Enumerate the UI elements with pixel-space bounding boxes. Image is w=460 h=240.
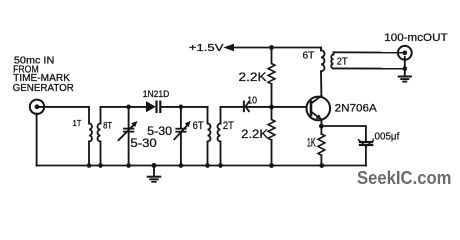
svg-text:2.2K: 2.2K (241, 129, 268, 141)
svg-text:100-mcOUT: 100-mcOUT (384, 32, 448, 44)
wire: connector down to bottom rail (36, 114, 38, 166)
resistor R3 1K (318, 126, 325, 165)
transformer T1 secondary winding 8T (98, 107, 101, 166)
label: 50mc IN / FROM / TIME-MARK / GENERATOR (13, 56, 74, 94)
svg-text:1N21D: 1N21D (143, 89, 170, 99)
svg-text:5-30: 5-30 (147, 124, 172, 138)
junction node: +1.5V rail at R1 (269, 45, 274, 50)
wire: connector to 1T top (37, 106, 89, 108)
svg-text:10: 10 (247, 95, 257, 107)
wire: emitter down to node E (320, 119, 322, 126)
junction node: base node B (269, 105, 274, 110)
junction node: output ground (402, 66, 407, 71)
wire: output connector down to ground (404, 57, 406, 76)
svg-text:GENERATOR: GENERATOR (13, 83, 74, 94)
svg-text:1T: 1T (73, 118, 82, 128)
output connector J2 (398, 46, 412, 60)
svg-text:+1.5V: +1.5V (189, 43, 224, 54)
junction node: rail at 1T (87, 163, 92, 168)
svg-text:1K: 1K (307, 138, 316, 150)
+1.5V supply arrow (225, 44, 321, 50)
wire: 8T top to diode anode (101, 106, 147, 108)
transformer T3 secondary winding 2T (331, 52, 333, 68)
resistor R1 2.2K (upper) (268, 48, 275, 107)
wire: 2T top to output connector (334, 51, 405, 53)
transformer T2 primary winding 6T (208, 107, 211, 166)
transformer T3 primary winding 6T (collector load) (321, 48, 325, 97)
junction node: rail at R2 (269, 163, 274, 168)
input connector J1 (30, 100, 44, 114)
variable capacitor C2 5-30 (174, 107, 189, 166)
svg-text:6T: 6T (193, 120, 204, 132)
svg-text:6T: 6T (303, 50, 315, 62)
wire: diode cathode to 6T top (161, 106, 208, 108)
wire: 2T top to coupling cap (221, 106, 243, 108)
ground (main rail) (148, 166, 161, 182)
transformer T2 secondary winding 2T (218, 107, 221, 166)
svg-text:2T: 2T (337, 55, 348, 67)
bottom ground rail (37, 165, 366, 167)
svg-text:2.2K: 2.2K (239, 72, 267, 84)
ground (output) (399, 77, 411, 82)
variable capacitor C1 5-30 (119, 107, 137, 166)
junction node: top rail at C2 (179, 105, 184, 110)
wire: cap to base node (248, 106, 307, 108)
junction node: rail at 8T (98, 163, 103, 168)
junction node: rail at T2 6T (205, 163, 210, 168)
capacitor C4 .005uf (358, 140, 373, 166)
svg-text:2T: 2T (223, 120, 234, 132)
wire: emitter node to bypass capacitor (321, 126, 366, 141)
junction node: rail at C1 (126, 163, 131, 168)
junction node: rail at T2 2T (218, 163, 223, 168)
svg-text:.005μf: .005μf (372, 131, 400, 143)
junction node: rail at C2 (179, 163, 184, 168)
junction node: rail at R3 (319, 163, 324, 168)
junction node: rail at ground (152, 163, 157, 168)
junction node: top rail at C1 (126, 105, 131, 110)
diode 1N21D (147, 102, 161, 112)
capacitor C3 10pf (244, 102, 249, 112)
junction node: emitter node E (319, 124, 324, 129)
wire: 2T bottom to output ground node (334, 67, 405, 69)
svg-text:SeekIC.com: SeekIC.com (357, 167, 452, 188)
svg-text:2N706A: 2N706A (335, 102, 378, 114)
transformer T1 primary winding 1T (89, 107, 92, 166)
svg-text:8T: 8T (103, 121, 112, 131)
transistor Q1 2N706A (307, 96, 331, 121)
resistor R2 2.2K (lower) (268, 107, 275, 166)
